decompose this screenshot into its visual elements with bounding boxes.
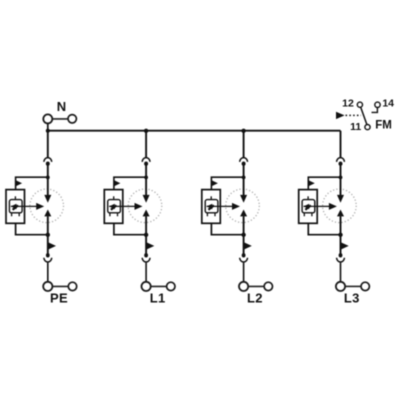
svg-text:11: 11 <box>350 121 361 133</box>
svg-text:L2: L2 <box>247 290 263 305</box>
svg-text:L1: L1 <box>150 290 166 305</box>
svg-text:14: 14 <box>382 97 394 109</box>
svg-text:L3: L3 <box>344 290 360 305</box>
svg-text:FM: FM <box>375 120 392 132</box>
svg-text:12: 12 <box>342 98 354 110</box>
svg-text:PE: PE <box>50 290 68 305</box>
svg-text:N: N <box>57 99 66 114</box>
